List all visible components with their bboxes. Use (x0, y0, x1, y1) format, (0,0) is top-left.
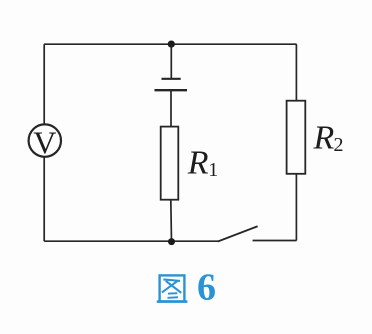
wire bottom left (bottom-left corner to switch pivot) (44, 240, 218, 242)
wire right upper (R2 up to top-right corner) (295, 44, 297, 100)
node B junction dot (bottom) (168, 238, 175, 245)
svg-text:2: 2 (334, 134, 344, 156)
wire top (node A to node B) (44, 43, 297, 45)
svg-text:6: 6 (197, 266, 216, 308)
battery cell (short negative plate) (162, 78, 181, 80)
wire left lower (voltmeter to bottom-left corner) (43, 157, 45, 241)
wire battery to R1 (170, 90, 172, 126)
wire R1 bottom lead (170, 200, 173, 242)
wire right lower (bottom-right corner up to R2) (295, 174, 297, 241)
caption character 图 (drawn glyph) (158, 275, 186, 301)
wire left upper (top-left corner down to voltmeter) (43, 44, 45, 124)
node A junction dot (top) (168, 41, 175, 48)
switch S (open knife switch lever) (218, 226, 258, 241)
wire bottom right (switch contact to bottom-right corner) (253, 240, 297, 242)
resistor R2 (box) (287, 101, 306, 174)
battery cell (long positive plate) (155, 89, 188, 91)
wire battery top lead (170, 44, 172, 79)
svg-text:R: R (187, 145, 209, 182)
svg-text:R: R (313, 120, 335, 157)
svg-text:V: V (33, 125, 56, 161)
resistor R1 (box) (161, 127, 179, 200)
svg-text:1: 1 (208, 159, 218, 181)
voltmeter V (meter circle) (29, 124, 61, 156)
